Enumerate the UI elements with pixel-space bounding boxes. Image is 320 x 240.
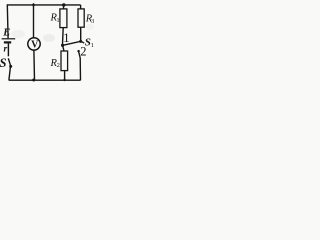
- faint scan smudge right of battery: [11, 30, 25, 38]
- paper background: [0, 0, 94, 90]
- wire contact1 to R2: [63, 46, 64, 51]
- wire R1 bottom lead: [62, 28, 65, 45]
- wire R3 bottom lead: [80, 27, 82, 41]
- svg-text:2: 2: [57, 62, 60, 69]
- resistor R2: [61, 51, 68, 71]
- node S1 pivot: [79, 40, 82, 43]
- wire voltmeter lower: [33, 50, 36, 80]
- switch S blade: [8, 58, 10, 66]
- wire voltmeter upper: [33, 3, 35, 37]
- wire switch to bottom-left corner: [9, 67, 11, 80]
- resistor R3: [78, 9, 84, 27]
- wire top horizontal: [7, 4, 80, 6]
- svg-text:3: 3: [91, 18, 94, 25]
- svg-text:V: V: [31, 40, 39, 51]
- node contact 1: [61, 44, 64, 47]
- svg-text:E: E: [2, 27, 10, 38]
- wire R1 top lead: [63, 5, 65, 9]
- wire bottom horizontal: [9, 79, 81, 81]
- node R2-bottom junction: [63, 79, 65, 81]
- svg-text:1: 1: [63, 30, 70, 45]
- svg-text:1: 1: [56, 17, 59, 24]
- wire R3 top lead (corner): [80, 5, 82, 9]
- switch S contact dot: [9, 65, 12, 68]
- svg-text:S: S: [0, 56, 7, 70]
- faint scan smudge right of voltmeter: [43, 34, 55, 42]
- node R1-top junction: [62, 3, 65, 6]
- wire battery to switch: [7, 44, 9, 57]
- wire contact2 to bottom-right corner: [79, 51, 81, 80]
- resistor R1: [60, 9, 67, 28]
- node V-top junction: [32, 4, 35, 7]
- svg-text:2: 2: [80, 44, 86, 58]
- svg-text:1: 1: [91, 42, 94, 49]
- wire left vertical upper: [6, 4, 9, 38]
- switch S1 arm: [63, 41, 84, 45]
- battery long plate: [2, 38, 16, 40]
- wire R2 bottom lead: [64, 71, 66, 81]
- svg-text:r: r: [4, 44, 8, 54]
- battery short thick plate: [4, 41, 11, 43]
- node V-bottom junction: [32, 79, 35, 82]
- faint scan smudge below R3 label: [86, 24, 94, 30]
- voltmeter V circle: [28, 38, 40, 50]
- node contact 2: [77, 50, 79, 52]
